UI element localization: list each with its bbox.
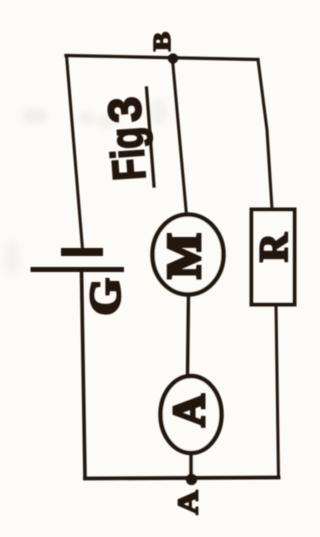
wire node B to motor <box>173 60 187 215</box>
wire resistor to bottom rail <box>276 305 279 478</box>
wire top (node B rail) <box>66 56 258 60</box>
label A (node A) <box>172 490 204 515</box>
wire motor to ammeter <box>188 294 189 376</box>
label B <box>148 32 175 51</box>
resistor R box <box>252 210 295 305</box>
node B junction dot <box>168 53 178 63</box>
motor M circle <box>153 215 224 295</box>
svg-text:3: 3 <box>98 95 152 124</box>
label M <box>158 233 211 278</box>
svg-text:B: B <box>148 32 175 51</box>
underline of Fig 3 <box>147 88 155 186</box>
battery G short thick plate <box>65 248 99 256</box>
wire left lower (battery to bottom rail) <box>82 272 86 479</box>
svg-text:M: M <box>158 233 211 278</box>
battery G long thin plate <box>33 267 122 272</box>
svg-text:A: A <box>164 394 214 427</box>
node A junction dot <box>186 474 197 485</box>
svg-text:Fig: Fig <box>100 126 155 183</box>
label R <box>251 232 296 262</box>
svg-text:R: R <box>251 232 296 262</box>
wire left upper (to battery) <box>67 56 83 250</box>
label A (ammeter) <box>164 394 214 427</box>
wire top-right corner to resistor <box>258 60 272 210</box>
svg-text:G: G <box>81 278 129 315</box>
svg-text:A: A <box>172 490 204 515</box>
label G <box>81 278 129 315</box>
label Fig 3 <box>98 95 156 182</box>
ammeter A circle <box>161 376 222 453</box>
wire bottom (node A rail) <box>85 478 279 479</box>
wire ammeter to node A <box>189 452 192 478</box>
